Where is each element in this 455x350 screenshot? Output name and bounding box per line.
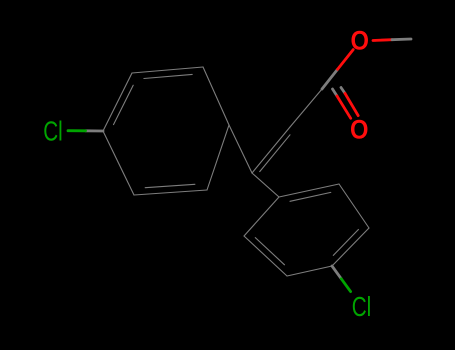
svg-text:Cl: Cl: [352, 291, 372, 322]
svg-text:O: O: [351, 26, 369, 56]
svg-text:O: O: [350, 115, 368, 145]
svg-text:Cl: Cl: [43, 116, 63, 147]
